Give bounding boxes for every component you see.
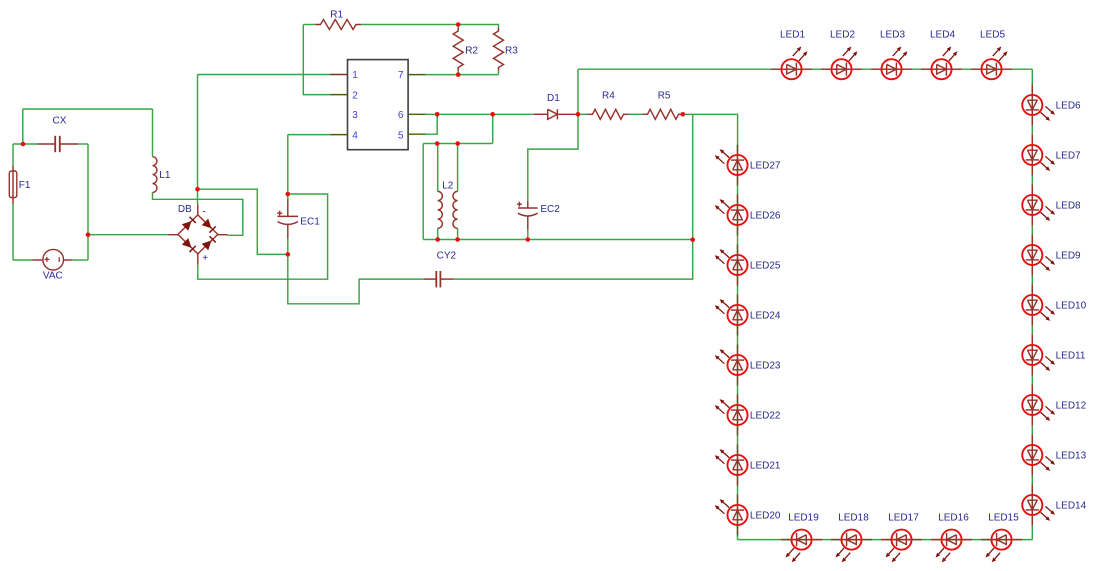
pin 3 [352, 110, 358, 121]
wire CY2 right to ground bus [454, 114, 693, 279]
svg-text:LED6: LED6 [1056, 101, 1081, 112]
svg-text:L2: L2 [442, 181, 454, 192]
LED LED3 [871, 30, 912, 80]
LED LED5 [971, 30, 1012, 80]
svg-text:DB: DB [178, 204, 192, 215]
svg-text:R5: R5 [658, 90, 671, 101]
wire R1 left vertical to pin2 [303, 25, 330, 95]
source VAC [33, 249, 73, 281]
wire pin4 [288, 134, 331, 136]
svg-text:3: 3 [352, 110, 358, 121]
wire AC node to bridge left [88, 234, 169, 236]
junction [681, 112, 686, 117]
wire L1 bottom to bridge right [153, 192, 243, 235]
wire right side of input loop [87, 144, 89, 260]
svg-text:+: + [202, 253, 208, 264]
wire L2 top line [423, 143, 493, 145]
svg-text:LED20: LED20 [750, 511, 781, 522]
junction [526, 237, 531, 242]
svg-text:7: 7 [398, 70, 404, 81]
junction [490, 112, 495, 117]
resistor R2 [453, 28, 478, 71]
svg-text:1: 1 [352, 70, 358, 81]
svg-text:LED12: LED12 [1056, 401, 1087, 412]
svg-text:LED13: LED13 [1056, 451, 1087, 462]
svg-text:LED10: LED10 [1056, 301, 1087, 312]
svg-text:LED25: LED25 [750, 261, 781, 272]
junction [286, 192, 291, 197]
svg-text:LED7: LED7 [1056, 151, 1081, 162]
wire pin7 line [426, 74, 499, 76]
svg-text:L1: L1 [159, 170, 171, 181]
svg-text:-: - [203, 207, 206, 218]
inductor L1 [153, 157, 171, 193]
junction [286, 252, 291, 257]
svg-text:LED23: LED23 [750, 361, 781, 372]
svg-text:LED21: LED21 [750, 461, 781, 472]
LED LED10 [1022, 285, 1086, 326]
LED LED4 [921, 30, 962, 80]
wire R2 top stub [457, 25, 459, 29]
svg-text:LED11: LED11 [1056, 351, 1086, 362]
LED LED23 [715, 345, 781, 386]
svg-text:6: 6 [398, 110, 404, 121]
svg-text:R4: R4 [602, 90, 615, 101]
junction [576, 112, 581, 117]
LED LED16 [931, 513, 972, 563]
LED LED8 [1022, 185, 1081, 226]
capacitor EC2 [517, 201, 560, 230]
svg-text:EC1: EC1 [300, 216, 320, 227]
LED LED14 [1022, 485, 1086, 526]
LED LED19 [781, 513, 822, 563]
junction [456, 72, 461, 77]
wire fuse bottom to VAC corner [12, 204, 14, 260]
LED LED12 [1022, 385, 1086, 426]
wire LED ring bottom row [738, 539, 1033, 541]
svg-text:LED1: LED1 [780, 30, 805, 41]
fuse F1 [9, 166, 31, 205]
wire D1 node to LED1 [578, 68, 772, 70]
LED LED2 [821, 30, 862, 80]
wire pin5 up to pin6 node [426, 114, 438, 134]
wire VAC left [13, 259, 33, 261]
LED LED18 [831, 513, 872, 563]
wire left drop to bottom bus [422, 144, 424, 240]
wire top-left vertical to CX node [22, 109, 24, 144]
capacitor CY2 [423, 250, 456, 287]
svg-text:LED2: LED2 [830, 30, 855, 41]
wire bridge plus to EC1 positive [198, 194, 328, 279]
resistor R4 [588, 90, 629, 119]
svg-text:LED27: LED27 [750, 161, 781, 172]
transformer L2 [438, 181, 458, 229]
wire LED ring top row [772, 68, 1033, 70]
svg-text:EC2: EC2 [540, 204, 560, 215]
wire pin6 to D1 [426, 113, 534, 115]
svg-text:VAC: VAC [43, 271, 63, 282]
wire VAC right [73, 259, 88, 261]
wire D1 node to EC2 top [528, 69, 578, 200]
pin 5 [398, 130, 426, 141]
LED LED21 [715, 445, 781, 486]
wire pin6 node down to L2 top line [492, 114, 494, 143]
diode D1 [534, 93, 577, 119]
LED LED17 [881, 513, 922, 563]
svg-text:F1: F1 [19, 180, 31, 191]
junction [456, 22, 461, 27]
junction [455, 237, 460, 242]
junction [435, 112, 440, 117]
capacitor EC1 [277, 199, 320, 239]
wire pin1 to bridge minus node [198, 74, 331, 76]
junction [195, 187, 200, 192]
pin 7 [398, 70, 426, 81]
svg-text:LED5: LED5 [980, 30, 1005, 41]
svg-text:CY2: CY2 [437, 250, 457, 261]
junction [690, 238, 695, 243]
wire D1 R4 gap [577, 113, 588, 115]
wire bottom bus [423, 239, 693, 241]
pin 6 [398, 110, 426, 121]
wire L2 left leads [437, 144, 439, 240]
svg-text:LED16: LED16 [938, 513, 969, 524]
svg-text:R2: R2 [465, 46, 478, 57]
svg-text:D1: D1 [547, 93, 560, 104]
LED LED22 [715, 395, 781, 436]
wire vertical pin1 node to bridge top [197, 75, 199, 205]
svg-text:LED8: LED8 [1056, 201, 1081, 212]
LED LED27 [715, 145, 781, 186]
wire top-left loop horizontal [23, 108, 153, 110]
wire R3 bottom stub [498, 71, 500, 75]
wire pin4 vertical to EC1 top [287, 135, 289, 199]
svg-text:LED19: LED19 [788, 513, 819, 524]
wire LED ring right column [1031, 69, 1033, 539]
resistor R3 [494, 28, 519, 71]
LED LED7 [1022, 135, 1081, 176]
bridge rectifier DB [169, 204, 228, 265]
wire LED ring left column [737, 145, 739, 540]
LED LED25 [715, 245, 781, 286]
LED LED11 [1022, 335, 1086, 376]
svg-text:CX: CX [53, 116, 67, 127]
svg-text:R1: R1 [330, 10, 343, 21]
svg-text:LED14: LED14 [1056, 501, 1087, 512]
svg-text:LED9: LED9 [1056, 251, 1081, 262]
wire EC1 bottom node to CY2 line [288, 239, 424, 304]
junction [435, 237, 440, 242]
LED LED6 [1022, 85, 1081, 126]
svg-text:LED15: LED15 [988, 513, 1019, 524]
svg-text:LED18: LED18 [838, 513, 869, 524]
wire R2 bottom stub [457, 71, 459, 75]
wire fuse top lead [12, 144, 14, 166]
wire L1 top lead [152, 109, 154, 157]
LED LED24 [715, 295, 781, 336]
wire R4 R5 gap [629, 113, 643, 115]
wire R5 to LED27 corner [684, 114, 738, 145]
junction [86, 232, 91, 237]
svg-text:LED4: LED4 [930, 30, 955, 41]
svg-text:LED26: LED26 [750, 211, 781, 222]
svg-text:LED24: LED24 [750, 311, 781, 322]
pin 2 [331, 90, 359, 101]
svg-text:LED17: LED17 [888, 513, 919, 524]
LED LED26 [715, 195, 781, 236]
wire R1 left lead [303, 24, 315, 26]
svg-text:4: 4 [352, 130, 358, 141]
pin 1 [331, 70, 359, 81]
pin 4 [331, 130, 359, 141]
LED LED13 [1022, 435, 1086, 476]
IC U1 [348, 60, 409, 150]
svg-text:LED3: LED3 [880, 30, 905, 41]
capacitor CX [38, 116, 78, 153]
LED LED15 [981, 513, 1022, 563]
LED LED1 [771, 30, 812, 80]
LED LED9 [1022, 235, 1081, 276]
wire EC2 bottom lead [527, 230, 529, 240]
svg-text:5: 5 [398, 130, 404, 141]
svg-text:2: 2 [352, 90, 358, 101]
wire CX node to fuse corner [13, 143, 38, 145]
wire L2 right leads [457, 144, 459, 240]
svg-text:LED22: LED22 [750, 411, 781, 422]
resistor R1 [316, 10, 362, 30]
wire CX right to loop corner [78, 143, 88, 145]
wire R1 right to R2 R3 tops [361, 25, 499, 29]
junction [435, 141, 440, 146]
svg-text:R3: R3 [505, 46, 518, 57]
junction [455, 141, 460, 146]
resistor R5 [643, 90, 684, 119]
junction [21, 142, 26, 147]
wire bridge minus to EC1 negative [198, 189, 288, 254]
LED LED20 [715, 495, 781, 536]
